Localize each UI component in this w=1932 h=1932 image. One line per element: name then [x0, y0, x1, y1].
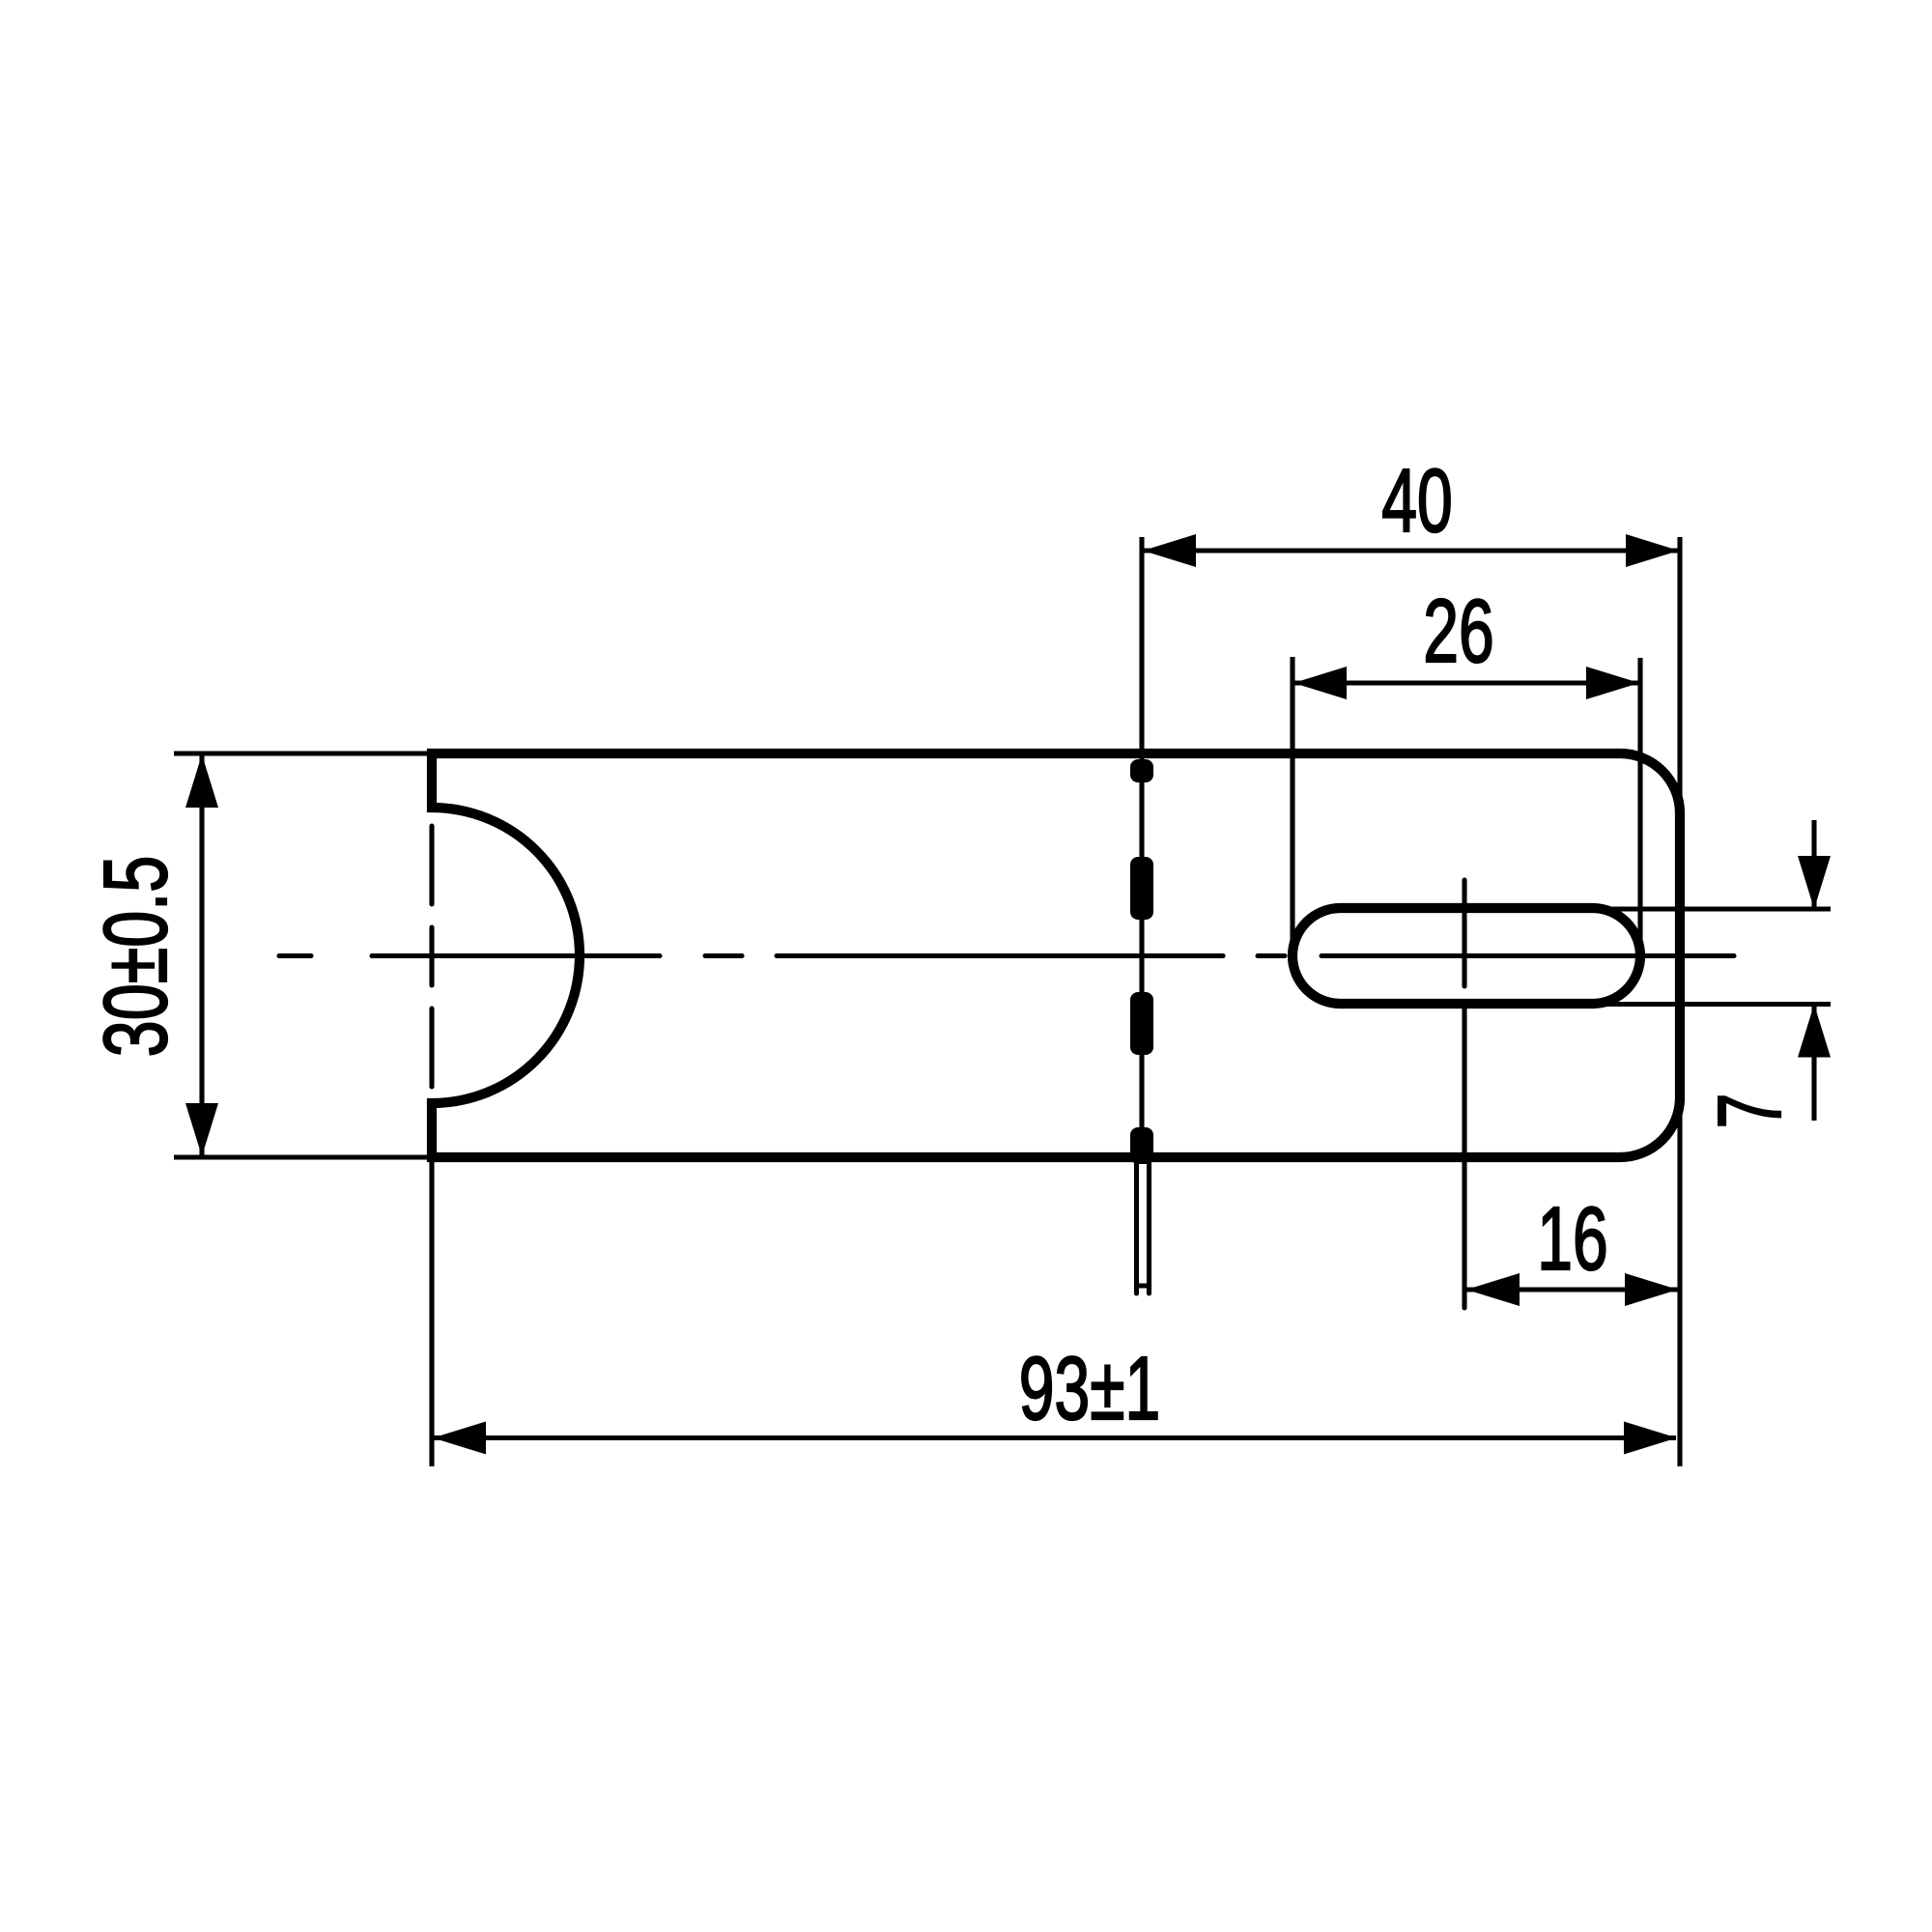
svg-text:30±0.5: 30±0.5 — [86, 856, 186, 1058]
svg-text:26: 26 — [1423, 582, 1493, 682]
svg-text:16: 16 — [1537, 1189, 1607, 1290]
svg-text:40: 40 — [1381, 451, 1452, 552]
svg-text:7: 7 — [1700, 1094, 1801, 1129]
svg-text:93±1: 93±1 — [1019, 1339, 1160, 1439]
